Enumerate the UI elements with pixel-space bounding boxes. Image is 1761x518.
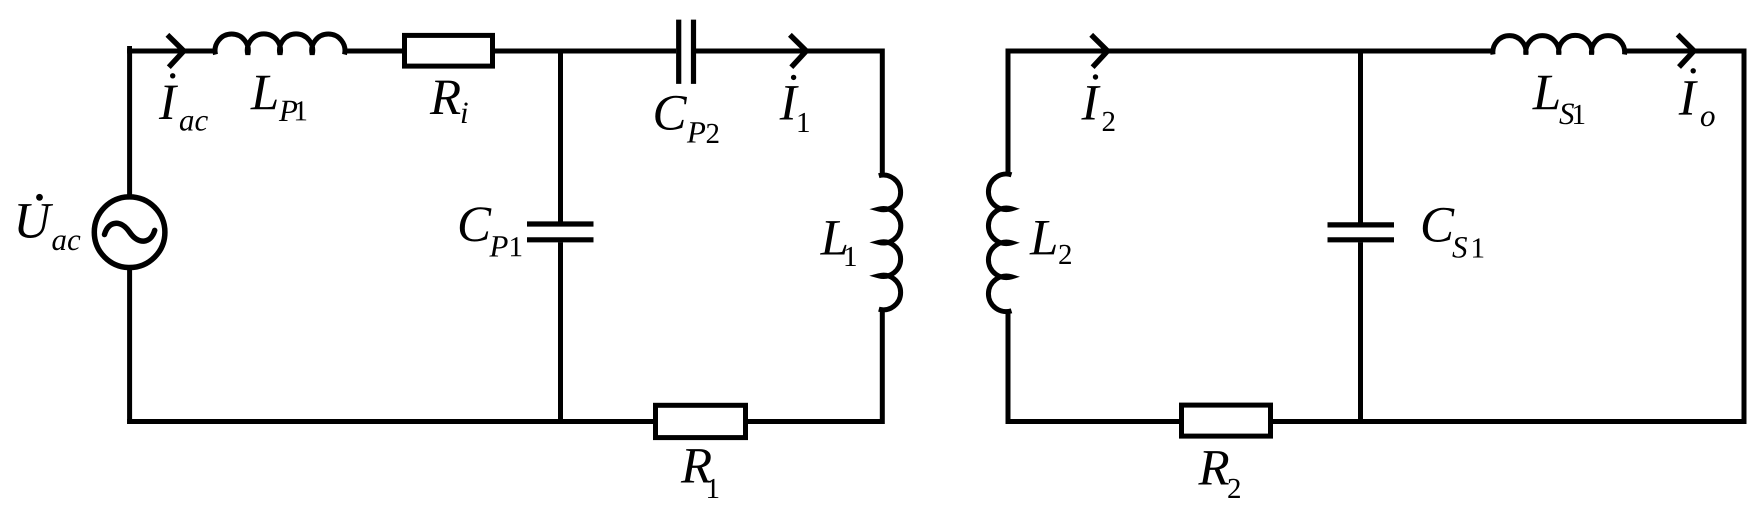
arrow: current I_2 on top wire: [1091, 35, 1107, 67]
label R_i: [430, 81, 468, 123]
inductor L_1 (vertical coil, bulges right): [879, 175, 901, 310]
label L_P1: [250, 76, 306, 121]
wire: top segment between L_P1 and R_i: [344, 49, 405, 54]
wire: top segment from L_S1 to top-right corner: [1624, 51, 1744, 56]
label L_S1: [1532, 76, 1584, 125]
label R_2: [1198, 451, 1240, 498]
label C_P2: [655, 96, 718, 143]
wire: bottom segment from R_2 to left corner: [1008, 419, 1179, 424]
wire: C_P1 branch, upper segment: [558, 51, 563, 222]
inductor L_S1 (horizontal coil): [1493, 35, 1625, 54]
arrow: current I_ac on top wire: [167, 35, 183, 67]
inductor L_P1 (horizontal coil): [215, 34, 345, 55]
wire: right circuit, left vertical lower segment: [1008, 311, 1013, 422]
resistor R_1 (series box on bottom wire): [656, 405, 746, 437]
label I_2: [1081, 74, 1114, 131]
wire: right circuit top segment to L_S1: [1008, 49, 1494, 54]
wire: top segment from C_P2 to top-right corner: [696, 51, 882, 176]
wire: C_S1 branch, lower segment: [1358, 242, 1363, 421]
wire: right circuit, left vertical upper segment: [1008, 51, 1013, 175]
wire: top segment from R_i to C_P2 left plate (through node above C_P1): [492, 49, 676, 54]
AC source U_ac: [94, 197, 165, 268]
wire: C_P1 branch, lower segment: [558, 242, 563, 421]
wire: top-left horizontal segment: [127, 49, 216, 54]
label I_o: [1679, 68, 1715, 126]
label U_ac (source voltage): [18, 194, 80, 250]
arrow: current I_1 on top wire: [790, 35, 806, 67]
inductor L_2 (vertical coil, bulges left): [988, 174, 1011, 312]
label R_1: [681, 449, 719, 498]
wire: bottom segment from right corner to R_2: [1273, 419, 1744, 424]
label L_1: [820, 221, 856, 266]
label C_S1: [1423, 208, 1484, 258]
label C_P1: [460, 207, 522, 256]
resistor R_i (series box on top wire): [405, 35, 493, 66]
label I_ac (input current): [159, 73, 208, 131]
wire: bottom segment from L_1 corner to R_1: [748, 419, 882, 424]
resistor R_2 (series box on bottom wire): [1182, 405, 1271, 436]
wire: C_S1 branch, upper segment: [1358, 51, 1363, 223]
label I_1: [780, 75, 809, 132]
capacitor C_P1 (shunt, horizontal plates): [527, 224, 594, 240]
wire: bottom segment from R_1 to bottom-left corner: [127, 419, 653, 424]
wire: left vertical, top segment (source to top-left corner): [130, 49, 132, 195]
label L_2: [1029, 221, 1071, 264]
capacitor C_S1 (shunt, horizontal plates): [1328, 225, 1395, 240]
arrow: current I_o on top wire: [1678, 35, 1694, 67]
wire: right vertical below L_1 down to bottom-right corner: [876, 309, 882, 422]
capacitor C_P2 (series, vertical plates): [679, 20, 694, 84]
wire: left vertical, bottom segment: [130, 270, 135, 422]
wire: right circuit right vertical: [1739, 51, 1744, 422]
